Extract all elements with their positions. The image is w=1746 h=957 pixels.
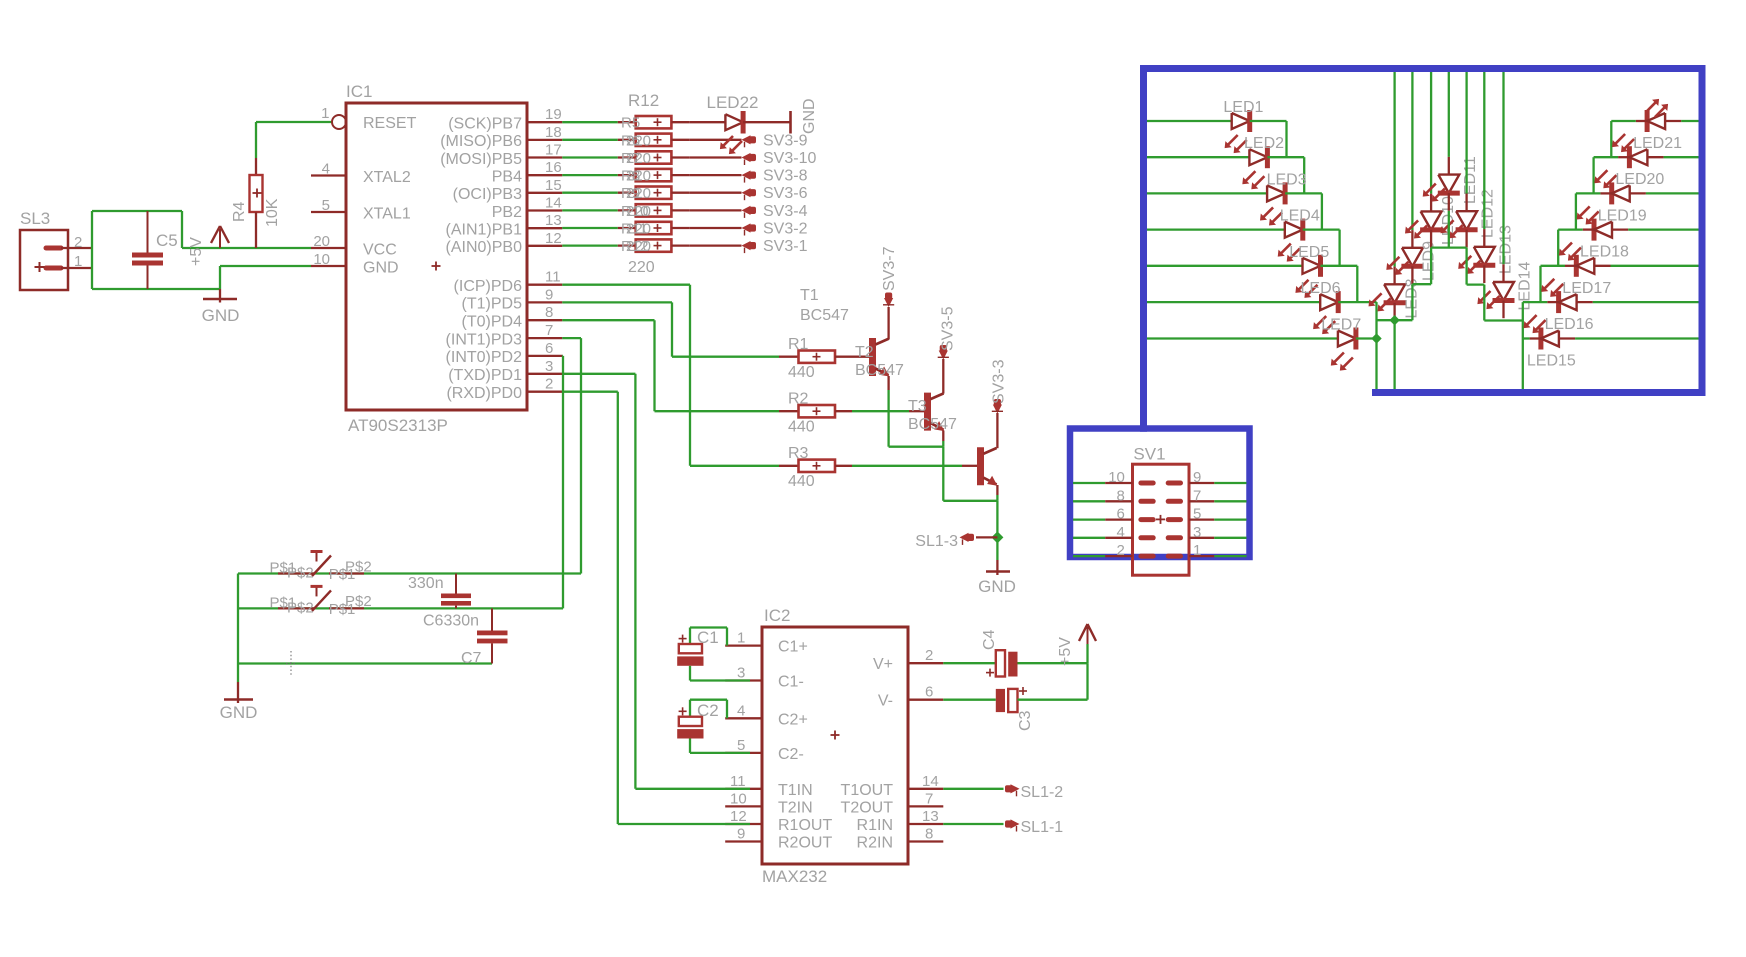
wire T1IN — [635, 788, 750, 790]
svg-text:12: 12 — [545, 230, 562, 247]
svg-text:SV3-10: SV3-10 — [763, 150, 816, 167]
diode LED7 — [1338, 331, 1356, 347]
svg-text:SV3-1: SV3-1 — [763, 238, 808, 255]
svg-text:10K: 10K — [264, 198, 281, 227]
svg-text:R1IN: R1IN — [857, 817, 893, 834]
wire IC1 pin to resistor row 1 — [562, 121, 618, 123]
svg-text:R5: R5 — [621, 115, 640, 132]
svg-text:(INT1)PD3: (INT1)PD3 — [446, 331, 523, 348]
wire LED7 node to bus — [1375, 339, 1377, 390]
SV1 row pins 4/3 — [1073, 537, 1105, 539]
node SL1-3 flag — [976, 536, 997, 538]
svg-text:4: 4 — [322, 161, 330, 178]
svg-text:220: 220 — [626, 168, 651, 185]
svg-text:SL1-3: SL1-3 — [915, 533, 958, 550]
svg-text:C7: C7 — [461, 650, 482, 667]
diode LED17 — [1574, 255, 1579, 277]
svg-text:15: 15 — [545, 177, 562, 194]
IC1 pin 1 inversion circle — [332, 115, 346, 129]
resistor R8 — [618, 174, 636, 176]
wire VCC net to IC1 pin20 — [182, 247, 311, 249]
supply +5V (IC2) — [1086, 644, 1088, 663]
svg-text:LED12: LED12 — [1480, 189, 1497, 238]
svg-text:R3: R3 — [788, 445, 809, 462]
emission arrows top right — [1646, 102, 1656, 112]
diode LED18 — [1592, 219, 1597, 241]
SV1 row pins 10/9 — [1073, 482, 1105, 484]
svg-text:(INT0)PD2: (INT0)PD2 — [446, 349, 523, 366]
diode LED4 — [1285, 222, 1303, 238]
wire bus to LED3 — [1147, 192, 1267, 194]
capacitor C3 — [943, 699, 996, 701]
svg-text:7: 7 — [545, 322, 553, 339]
transistor T3 collector — [984, 448, 997, 454]
svg-text:220: 220 — [626, 132, 651, 149]
svg-text:PB2: PB2 — [492, 204, 522, 221]
svg-text:(T1)PD5: (T1)PD5 — [462, 296, 523, 313]
svg-text:IC2: IC2 — [764, 606, 790, 625]
wire switch row2 — [238, 607, 563, 609]
svg-text:12: 12 — [730, 808, 747, 825]
bus frame around SV1 — [1070, 429, 1250, 558]
svg-text:220: 220 — [626, 185, 651, 202]
svg-text:220: 220 — [626, 238, 651, 255]
node SV3-3 arrow — [996, 413, 998, 448]
svg-text:C2+: C2+ — [778, 711, 808, 728]
svg-text:440: 440 — [788, 473, 815, 490]
svg-text:13: 13 — [922, 808, 939, 825]
capacitor C4 — [943, 662, 996, 664]
svg-text:(AIN0)PB0: (AIN0)PB0 — [446, 239, 523, 256]
wire pin9 to R1 — [562, 301, 672, 303]
svg-text:14: 14 — [922, 773, 939, 790]
transistor T2 emitter — [931, 423, 944, 430]
wire to flag SV3-9 — [689, 139, 741, 141]
node SL1-1 flag — [943, 823, 1003, 825]
svg-text:SV3-3: SV3-3 — [991, 359, 1008, 404]
svg-text:LED17: LED17 — [1562, 280, 1611, 297]
transistor T2 collector — [931, 393, 944, 399]
svg-text:(OCI)PB3: (OCI)PB3 — [453, 186, 522, 203]
svg-text:GND: GND — [220, 703, 258, 722]
wire bus to LED2 — [1147, 156, 1249, 158]
wire pin7 to switch row1 — [562, 337, 581, 339]
svg-text:T2OUT: T2OUT — [841, 799, 894, 816]
wire pin3 to IC2 T1IN — [562, 373, 635, 375]
diode LED16 — [1556, 291, 1561, 313]
wire IC1 pin to resistor row 8 — [562, 244, 618, 246]
svg-text:2: 2 — [74, 234, 82, 251]
svg-text:LED4: LED4 — [1280, 208, 1320, 225]
svg-text:R4: R4 — [231, 201, 248, 222]
svg-text:SV1: SV1 — [1133, 445, 1165, 464]
svg-text:LED16: LED16 — [1545, 316, 1594, 333]
resistor R6 — [618, 139, 636, 141]
svg-text:18: 18 — [545, 124, 562, 141]
svg-text:17: 17 — [545, 142, 562, 159]
resistor R5 — [618, 121, 636, 123]
wire bus to LED11 — [1448, 72, 1450, 157]
svg-text:SV3-4: SV3-4 — [763, 203, 808, 220]
node SV3-5 arrow — [942, 359, 944, 394]
svg-text:3: 3 — [1193, 524, 1201, 541]
wire LED17 to bus — [1594, 265, 1610, 267]
svg-text:9: 9 — [737, 826, 745, 843]
svg-text:330n: 330n — [408, 575, 444, 592]
wire to flag SV3-2 — [689, 227, 741, 229]
svg-text:BC547: BC547 — [855, 362, 904, 379]
wire IC1 pin to resistor row 4 — [562, 174, 618, 176]
diode LED5 — [1303, 258, 1321, 274]
svg-text:4: 4 — [1117, 524, 1125, 541]
node SV3-4 — [742, 206, 751, 215]
wire bus to LED8 — [1393, 72, 1395, 267]
wire LED1 chain — [1250, 120, 1287, 122]
svg-text:XTAL2: XTAL2 — [363, 169, 411, 186]
svg-text:GND: GND — [363, 260, 399, 277]
svg-text:1: 1 — [74, 253, 82, 270]
svg-text:T2: T2 — [855, 344, 874, 361]
connector SL3 — [20, 230, 68, 290]
wire RESET net — [256, 121, 332, 123]
connector SV1 — [1133, 464, 1190, 575]
wire bus to LED9 — [1411, 72, 1413, 230]
svg-text:BC547: BC547 — [908, 416, 957, 433]
wire LED19 chain — [1575, 193, 1577, 229]
svg-text:C1+: C1+ — [778, 639, 808, 656]
diode LED15 — [1538, 328, 1543, 350]
diode LED6 — [1320, 294, 1338, 310]
bus frame around LED matrix — [1140, 65, 1147, 432]
svg-text:8: 8 — [1117, 487, 1125, 504]
wire LED4 chain — [1303, 228, 1340, 230]
svg-text:SV3-5: SV3-5 — [940, 306, 957, 351]
svg-text:220: 220 — [626, 221, 651, 238]
diode LED8 — [1384, 284, 1405, 303]
wire LED2 chain — [1267, 156, 1304, 158]
wire switch row1 — [238, 572, 581, 574]
node SV3-10 — [742, 153, 751, 162]
resistor R1 440 — [779, 356, 799, 358]
svg-text:(ICP)PD6: (ICP)PD6 — [454, 278, 523, 295]
svg-text:1: 1 — [1193, 542, 1201, 559]
wire bus to LED4 — [1147, 228, 1285, 230]
svg-text:2: 2 — [925, 647, 933, 664]
node SV3-2 — [742, 223, 751, 232]
node SV3-6 — [742, 188, 751, 197]
transistor T1 BC547 — [869, 338, 876, 376]
svg-text:440: 440 — [788, 419, 815, 436]
svg-text:XTAL1: XTAL1 — [363, 206, 411, 223]
SV1 row pins 2/1 — [1073, 555, 1105, 557]
svg-text:(AIN1)PB1: (AIN1)PB1 — [446, 222, 523, 239]
svg-text:(TXD)PD1: (TXD)PD1 — [448, 367, 522, 384]
svg-text:C4: C4 — [981, 629, 998, 650]
svg-text:19: 19 — [545, 106, 562, 123]
wire LED3 chain — [1285, 192, 1322, 194]
svg-text:R2IN: R2IN — [857, 835, 893, 852]
svg-text:RESET: RESET — [363, 115, 417, 132]
diode LED10 — [1421, 211, 1442, 230]
node SV3-8 — [742, 171, 751, 180]
junction LED7 node — [1371, 333, 1381, 343]
svg-text:R1OUT: R1OUT — [778, 817, 832, 834]
svg-text:11: 11 — [545, 269, 561, 286]
wire LED17 chain — [1539, 266, 1541, 302]
svg-text:SV3-8: SV3-8 — [763, 168, 808, 185]
svg-text:BC547: BC547 — [800, 307, 849, 324]
wire IC1 pin to resistor row 6 — [562, 209, 618, 211]
svg-text:P$2: P$2 — [287, 565, 314, 582]
svg-text:R12: R12 — [628, 91, 659, 110]
svg-text:LED19: LED19 — [1598, 207, 1647, 224]
diode LED2 — [1249, 149, 1267, 165]
wire LED18 to bus — [1612, 228, 1628, 230]
resistor R9 — [618, 192, 636, 194]
IC2 left pins — [725, 644, 762, 646]
svg-text:+5V: +5V — [188, 237, 205, 266]
svg-text:P$2: P$2 — [345, 558, 372, 575]
capacitor C2 — [689, 700, 691, 717]
resistor R7 — [618, 156, 636, 158]
wire emitters to SL1-3/GND — [889, 446, 944, 448]
ground GND (left) — [219, 289, 221, 303]
svg-text:C3: C3 — [1017, 710, 1034, 731]
wire bus to LED5 — [1147, 265, 1303, 267]
wire bus to LED13 — [1483, 72, 1485, 229]
op IC1 AT90S2313P body — [346, 103, 527, 410]
wire pin11 to R3 — [562, 284, 690, 286]
wire left vertical to GND — [237, 574, 239, 683]
svg-text:LED5: LED5 — [1289, 244, 1329, 261]
svg-text:SV3-6: SV3-6 — [763, 185, 808, 202]
wire LED18 chain — [1557, 230, 1559, 266]
transistor T1 collector — [876, 339, 889, 345]
svg-text:6: 6 — [1117, 506, 1125, 523]
wire bus to LED14 — [1502, 72, 1504, 264]
wire bus to LED7 — [1147, 337, 1338, 339]
svg-text:LED20: LED20 — [1615, 171, 1664, 188]
wire bus to LED6 — [1147, 301, 1320, 303]
ground GND (buttons) — [237, 682, 239, 703]
svg-text:10: 10 — [1108, 469, 1125, 486]
resistor R12 — [618, 244, 636, 246]
svg-text:LED11: LED11 — [1462, 156, 1479, 204]
diode LED19 — [1609, 182, 1614, 204]
svg-text:AT90S2313P: AT90S2313P — [348, 416, 448, 435]
svg-text:3: 3 — [737, 665, 745, 682]
ground GND (transistors) — [996, 560, 998, 575]
svg-text:C1: C1 — [697, 628, 719, 647]
wire bus to LED10 — [1430, 72, 1432, 194]
svg-text:9: 9 — [545, 286, 553, 303]
resistor R4 — [255, 122, 257, 158]
transistor T3 — [977, 447, 984, 485]
svg-text:(MISO)PB6: (MISO)PB6 — [440, 133, 522, 150]
svg-text:T2IN: T2IN — [778, 799, 813, 816]
svg-text:6: 6 — [925, 684, 933, 701]
svg-text:LED13: LED13 — [1497, 225, 1514, 274]
wire ground row — [238, 662, 492, 664]
capacitor C7 — [491, 608, 493, 630]
resistor R11 — [618, 227, 636, 229]
wire LED8 node to bus — [1393, 320, 1395, 389]
wire IC1 pin to resistor row 7 — [562, 227, 618, 229]
svg-text:LED18: LED18 — [1580, 244, 1629, 261]
junction LED8 node — [1389, 315, 1399, 325]
node SV3-1 — [742, 241, 751, 250]
SV1 row pins 8/7 — [1073, 500, 1105, 502]
wire IC1 pin to resistor row 2 — [562, 139, 618, 141]
svg-text:LED15: LED15 — [1527, 353, 1576, 370]
svg-text:MAX232: MAX232 — [762, 867, 827, 886]
svg-text:PB4: PB4 — [492, 169, 522, 186]
ground GND (LED22) — [789, 111, 792, 134]
svg-text:R1: R1 — [788, 336, 809, 353]
svg-text:3: 3 — [545, 358, 553, 375]
wire bus to LED12 — [1465, 72, 1467, 194]
svg-text:(T0)PD4: (T0)PD4 — [462, 314, 523, 331]
wire middle V interconnect — [1377, 319, 1413, 321]
node SL1-2 flag — [943, 788, 1003, 790]
node SV3-7 arrow — [884, 298, 893, 307]
diode LED9 — [1402, 248, 1423, 266]
diode LED11 — [1438, 175, 1459, 194]
svg-text:R2OUT: R2OUT — [778, 835, 832, 852]
wire IC1 pin to resistor row 5 — [562, 192, 618, 194]
wire LED6 chain — [1338, 301, 1376, 303]
svg-text:2: 2 — [545, 376, 553, 393]
wire to flag SV3-1 — [689, 244, 741, 246]
supply +5V symbol — [219, 229, 221, 248]
svg-text:220: 220 — [626, 203, 651, 220]
wire pin6 to switch row2 — [561, 355, 564, 357]
svg-text:14: 14 — [545, 195, 562, 212]
wire to flag SV3-10 — [689, 156, 741, 158]
svg-text:SV3-7: SV3-7 — [881, 246, 898, 291]
capacitor C5 — [147, 211, 149, 253]
wire LED19 to bus — [1630, 192, 1646, 194]
svg-text:220: 220 — [626, 150, 651, 167]
svg-text:440: 440 — [788, 364, 815, 381]
svg-text:V+: V+ — [873, 656, 893, 673]
svg-text:LED22: LED22 — [707, 93, 759, 112]
capacitor C6 330n — [455, 574, 457, 594]
diode LED14 — [1493, 282, 1514, 301]
diode LED1 — [1232, 113, 1250, 129]
wire to flag SV3-4 — [689, 209, 741, 211]
svg-text:C2: C2 — [697, 701, 719, 720]
svg-text:R2: R2 — [788, 391, 809, 408]
transistor T1 emitter — [876, 369, 889, 376]
wire LED20 to bus — [1647, 156, 1663, 158]
svg-text:C1-: C1- — [778, 674, 804, 691]
IC1 right pins — [527, 121, 562, 123]
svg-text:2: 2 — [1117, 542, 1125, 559]
svg-text:1: 1 — [321, 105, 329, 122]
IC1 left pins 4,5,20,10 — [311, 174, 346, 176]
wire pin2 to IC2 R1OUT — [562, 391, 618, 393]
wire IC1 pin10 GND — [220, 265, 311, 267]
transistor T3 emitter — [984, 478, 997, 485]
wire to flag SV3-6 — [689, 192, 741, 194]
svg-text:8: 8 — [925, 826, 933, 843]
wire to flag SV3-8 — [689, 174, 741, 176]
svg-text:(SCK)PB7: (SCK)PB7 — [448, 116, 522, 133]
svg-text:LED3: LED3 — [1267, 171, 1307, 188]
diode LED12 — [1456, 211, 1477, 230]
diode LED22 — [689, 121, 725, 123]
svg-text:LED21: LED21 — [1633, 135, 1682, 152]
svg-text:P$2: P$2 — [345, 593, 372, 610]
svg-text:20: 20 — [313, 233, 330, 250]
switch S (pushbutton) — [278, 572, 314, 574]
svg-text:SL3: SL3 — [20, 209, 50, 228]
resistor R3 440 — [779, 465, 799, 467]
wire LED20 chain — [1592, 157, 1594, 193]
capacitor C1 — [689, 628, 691, 645]
svg-text:+5V: +5V — [1057, 637, 1074, 666]
resistor R2 440 — [779, 410, 799, 412]
op IC2 MAX232 body — [762, 627, 908, 864]
svg-text:LED2: LED2 — [1244, 135, 1284, 152]
svg-text:C6330n: C6330n — [423, 613, 479, 630]
svg-text:GND: GND — [801, 98, 818, 134]
wire LED15 to bus — [1559, 337, 1575, 339]
node SV3-9 — [742, 135, 751, 144]
wire pin8 to R2 — [562, 319, 654, 321]
svg-text:LED6: LED6 — [1301, 280, 1341, 297]
diode LED20 — [1627, 146, 1632, 168]
svg-text:GND: GND — [202, 306, 240, 325]
svg-text:6: 6 — [545, 340, 553, 357]
wire LED21 to bus — [1665, 120, 1681, 122]
svg-text:V-: V- — [878, 693, 893, 710]
svg-text:16: 16 — [545, 159, 562, 176]
svg-text:LED1: LED1 — [1223, 99, 1263, 116]
svg-text:5: 5 — [1193, 506, 1201, 523]
svg-text:T1IN: T1IN — [778, 782, 813, 799]
wire R1OUT — [618, 823, 750, 825]
svg-text:10: 10 — [730, 790, 747, 807]
svg-text:(MOSI)PB5: (MOSI)PB5 — [440, 151, 522, 168]
wire LED21 chain — [1610, 121, 1612, 157]
svg-text:LED7: LED7 — [1321, 317, 1361, 334]
origin cross mark — [290, 651, 292, 676]
svg-text:GND: GND — [978, 577, 1016, 596]
svg-text:SV3-2: SV3-2 — [763, 221, 808, 238]
svg-text:7: 7 — [925, 790, 933, 807]
wire LED5 chain — [1321, 265, 1358, 267]
svg-text:10: 10 — [313, 251, 330, 268]
switch S (pushbutton) — [278, 607, 314, 609]
junction SL1-3 — [991, 531, 1003, 543]
svg-text:(RXD)PD0: (RXD)PD0 — [446, 385, 522, 402]
svg-text:C2-: C2- — [778, 746, 804, 763]
svg-text:P$2: P$2 — [287, 599, 314, 616]
svg-text:5: 5 — [322, 197, 330, 214]
svg-text:13: 13 — [545, 212, 562, 229]
wire IC1 pin to resistor row 3 — [562, 156, 618, 158]
wire SL3/C5 loop — [91, 211, 93, 289]
svg-text:9: 9 — [1193, 469, 1201, 486]
wire LED16 chain to bus — [1522, 302, 1524, 389]
wire GND bottom — [92, 288, 220, 290]
svg-text:11: 11 — [730, 773, 746, 790]
svg-text:7: 7 — [1193, 487, 1201, 504]
svg-text:IC1: IC1 — [346, 82, 372, 101]
svg-text:8: 8 — [545, 304, 553, 321]
